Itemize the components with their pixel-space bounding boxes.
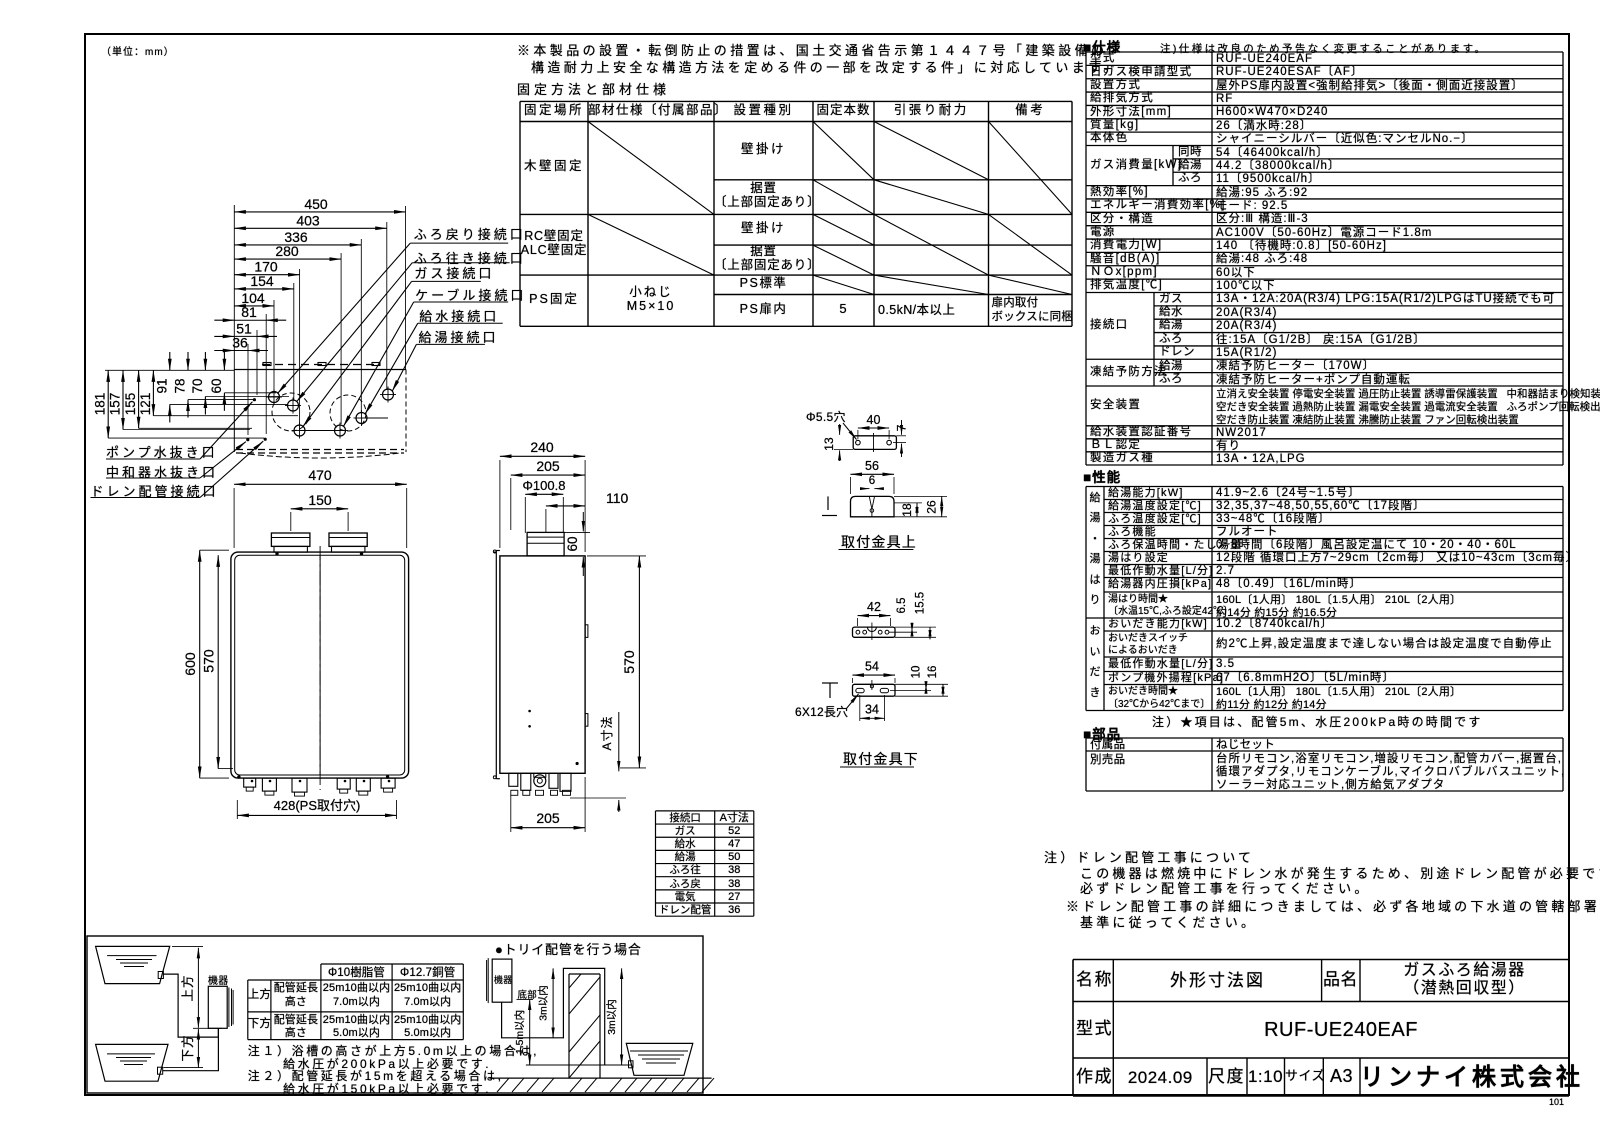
connection ports <box>269 392 280 403</box>
label 中和器水抜き口 <box>106 466 218 481</box>
ground hatching <box>497 1078 509 1092</box>
performance table note <box>1152 716 1483 730</box>
lower pipe <box>163 1028 219 1070</box>
bracket wall mark upper <box>827 496 829 510</box>
connection labels right fan <box>410 242 508 244</box>
parts table grid <box>1086 737 1563 739</box>
front view body <box>231 552 409 778</box>
piping table <box>321 963 463 965</box>
performance table header <box>1083 470 1121 486</box>
label Φ5.5穴 <box>806 411 846 425</box>
piping notes <box>248 1045 539 1059</box>
A-dimension table <box>656 812 715 824</box>
side view bottom connectors <box>509 773 518 786</box>
fixing method table <box>520 104 588 118</box>
label ガス接続口 <box>414 267 494 282</box>
drain labels left fan <box>106 458 200 460</box>
label 給水接続口 <box>419 310 499 325</box>
ground line <box>489 1077 711 1079</box>
spec table <box>1216 53 1313 66</box>
bracket lower bar2 <box>853 674 896 676</box>
title block <box>1076 970 1113 990</box>
label ポンプ水抜き口 <box>106 446 218 461</box>
performance table grid <box>1086 486 1563 488</box>
bracket lower bar1 <box>858 615 891 617</box>
label ふろ往き接続口 <box>414 252 526 267</box>
spec table header <box>1083 40 1121 56</box>
upper pipe <box>163 974 218 1037</box>
unit 機器 (left diagram) <box>208 986 227 1028</box>
front view flue pipes <box>271 533 310 546</box>
side view dims <box>500 455 585 457</box>
front view bottom fittings <box>244 778 256 787</box>
side view latches <box>585 625 588 638</box>
label ふろ戻り接続口 <box>414 228 526 243</box>
A-dim table grid <box>656 810 754 812</box>
unit 機器 (torii diagram) <box>492 959 512 1002</box>
parts table <box>1090 739 1125 752</box>
right bathtub <box>626 1043 693 1075</box>
front view dims <box>234 483 407 485</box>
wall with hatch <box>568 974 570 1078</box>
下方 dimension <box>197 1029 199 1068</box>
unit note <box>101 47 175 59</box>
parts table header <box>1083 727 1121 743</box>
label ドレン配管接続口 <box>91 485 219 500</box>
title block grid <box>1073 959 1569 961</box>
label 取付金具下 <box>843 751 919 767</box>
上方 dimension <box>197 948 199 1028</box>
label 取付金具上 <box>841 534 917 550</box>
lower bathtub <box>96 1044 168 1081</box>
1.5m dim <box>529 999 531 1065</box>
side view body <box>500 556 585 773</box>
performance table <box>1090 492 1101 505</box>
spec table grid <box>1086 51 1563 53</box>
fixing table grid <box>520 100 1072 102</box>
torii pipes <box>502 968 605 1065</box>
label 底部 <box>518 991 538 1002</box>
drain dots <box>253 398 256 401</box>
side view flue <box>527 532 564 556</box>
bracket wall mark lower <box>822 682 838 684</box>
3m dim right <box>621 968 623 1065</box>
drain piping note <box>1044 851 1254 866</box>
label 給湯接続口 <box>419 331 499 346</box>
bracket upper plate2 <box>851 473 895 475</box>
top note text <box>517 44 1107 59</box>
vertical dimensions left side <box>105 369 234 371</box>
piping section box <box>87 936 703 1093</box>
front view screws <box>275 552 278 555</box>
label ケーブル接続口 <box>415 289 526 304</box>
floor line <box>526 1064 632 1066</box>
page number 101 <box>1549 1097 1564 1107</box>
fixing table diagonals <box>588 122 714 215</box>
fixing-method table title <box>517 83 670 98</box>
upper bathtub <box>96 946 170 983</box>
top view (bottom of unit) outline <box>234 369 406 371</box>
dashed circles <box>272 393 310 431</box>
3m dim left <box>552 968 554 1037</box>
bracket upper plate1 <box>853 436 896 450</box>
horizontal dimensions top view <box>234 211 405 213</box>
port connecting lines <box>300 430 341 432</box>
label 6X12長穴 <box>795 706 848 720</box>
bracket upper dims1 <box>858 427 889 429</box>
